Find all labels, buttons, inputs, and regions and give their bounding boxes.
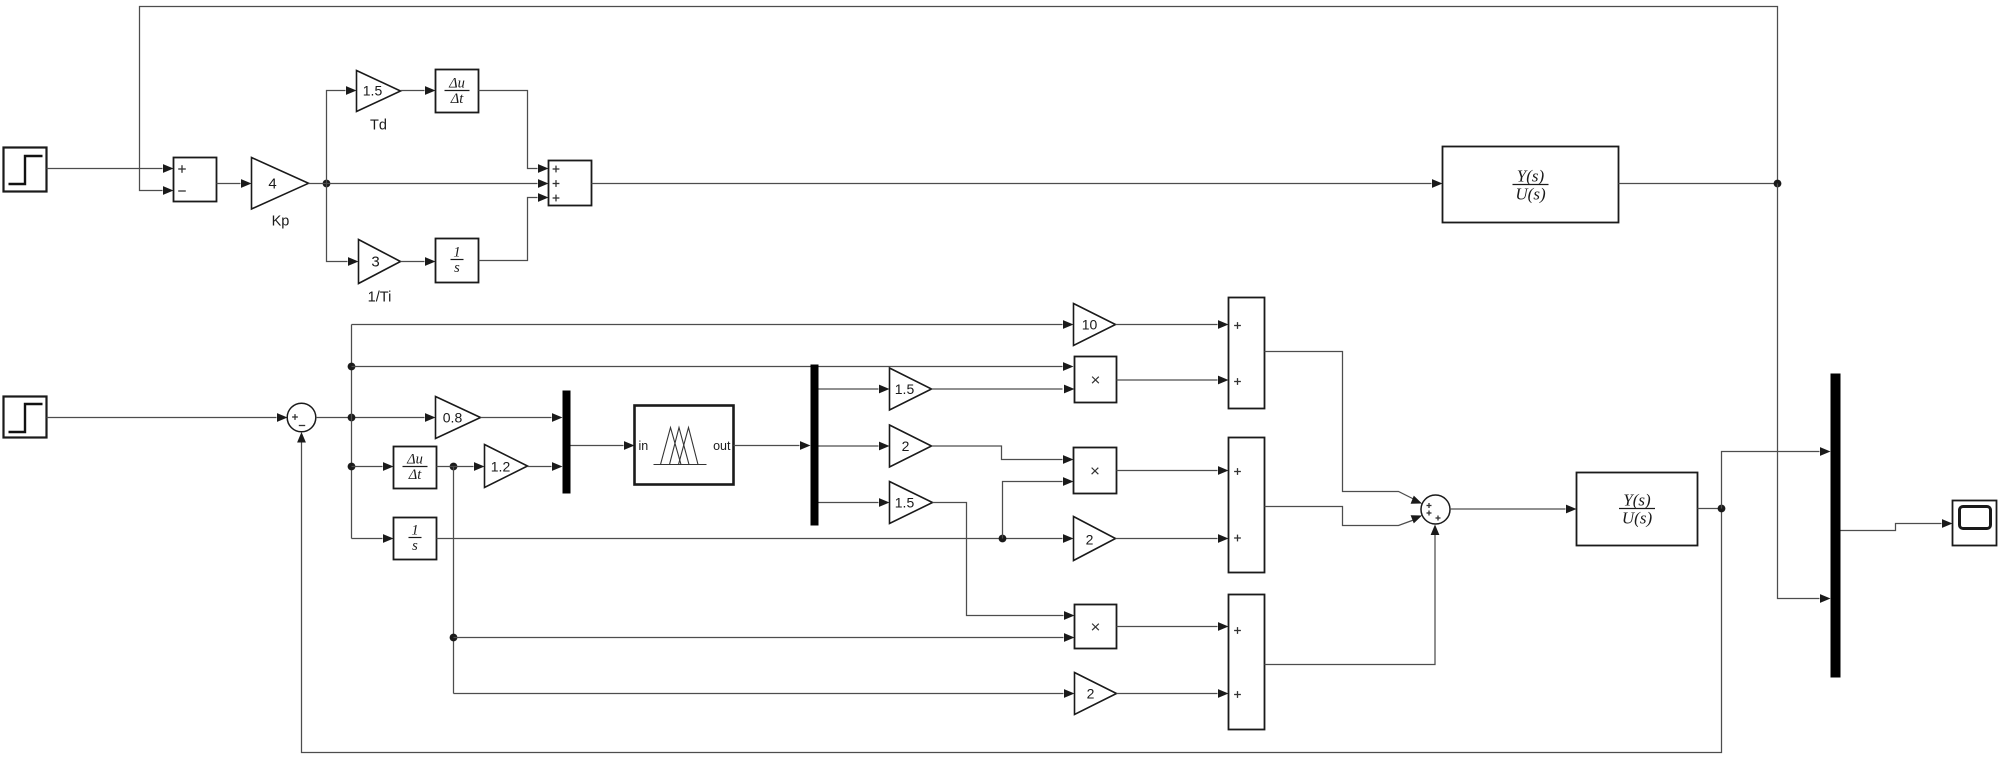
svg-text:4: 4 xyxy=(268,176,276,193)
scope block Scope xyxy=(1953,501,1997,546)
wire error to Product1 xyxy=(352,362,1074,371)
node after Kp xyxy=(323,180,331,188)
wire bottom feedback xyxy=(297,432,1721,753)
svg-text:3: 3 xyxy=(371,254,379,271)
wire 2c to SumR3 xyxy=(1117,689,1229,698)
wire Product2 to SumR2 xyxy=(1117,466,1229,475)
svg-text:0.8: 0.8 xyxy=(443,410,463,426)
wire derivative2 to 1.2 xyxy=(437,462,485,471)
wire top feedback xyxy=(140,7,1778,195)
wire derivative2 trunk xyxy=(453,467,455,694)
gain value 1.5 b xyxy=(890,482,933,524)
wire integrator2 to 2b xyxy=(437,534,1074,543)
wire SumR2 to SumC2 xyxy=(1265,507,1423,526)
svg-text:in: in xyxy=(639,439,649,453)
svg-text:Y(s): Y(s) xyxy=(1623,491,1651,510)
svg-text:U(s): U(s) xyxy=(1515,185,1546,204)
wire Demux to 1.5a xyxy=(819,385,890,394)
gain value 1.2 xyxy=(485,445,528,488)
svg-text:Δt: Δt xyxy=(408,467,423,483)
gain value 1.5 a xyxy=(890,368,932,410)
label 1/Ti xyxy=(368,290,392,306)
demux Demux1 xyxy=(811,365,819,526)
wire Plant1 to node xyxy=(1619,183,1778,185)
gain Kp value 4 xyxy=(252,158,309,210)
svg-text:2: 2 xyxy=(1086,532,1094,548)
gain Td value 1.5 xyxy=(357,71,401,112)
derivative block du/dt bottom xyxy=(394,447,437,489)
node derivative2 output xyxy=(450,463,458,471)
svg-text:Kp: Kp xyxy=(272,214,290,230)
wire error to derivative2 xyxy=(352,462,394,471)
svg-text:1: 1 xyxy=(453,245,460,261)
sum block SumR3 xyxy=(1229,595,1265,730)
wire Product1 to SumR1 xyxy=(1117,376,1229,385)
product Product3 xyxy=(1075,605,1117,649)
svg-text:Y(s): Y(s) xyxy=(1517,167,1545,186)
wire 10 to SumR1 xyxy=(1116,320,1229,329)
svg-text:Δu: Δu xyxy=(448,76,465,92)
node derivative branch xyxy=(450,634,458,642)
wire 1/Ti gain to integrator xyxy=(401,257,436,266)
wire integrator to Sum2 xyxy=(479,193,549,260)
svg-text:1.5: 1.5 xyxy=(895,495,915,511)
wire Kp to Sum2 middle xyxy=(309,179,549,188)
step source Step1 xyxy=(4,148,47,192)
wire Plant2 to Mux2 xyxy=(1722,447,1831,508)
mux Mux2 xyxy=(1831,374,1841,678)
svg-text:2: 2 xyxy=(902,438,910,454)
wire branch to Td gain xyxy=(327,86,357,183)
node integrator line xyxy=(999,535,1007,543)
svg-text:2: 2 xyxy=(1087,686,1095,702)
node error to product xyxy=(348,363,356,371)
transfer fcn Plant2 Y(s)/U(s) xyxy=(1577,473,1698,546)
wire Sum2 to Plant1 xyxy=(592,179,1443,188)
sum circle SumC1 xyxy=(287,403,316,432)
derivative block du/dt top xyxy=(436,70,479,113)
wire error to integrator2 xyxy=(352,534,394,543)
gain value 2 b xyxy=(1074,517,1116,561)
wire SumR1 to SumC2 xyxy=(1265,352,1423,504)
gain 1/Ti value 3 xyxy=(359,240,401,284)
wire Demux to 2a xyxy=(819,442,890,451)
wire branch to 1/Ti gain xyxy=(327,184,359,266)
wire error to gain 10 xyxy=(352,320,1074,329)
wire 1.2 to Mux1 xyxy=(528,462,563,471)
svg-text:1: 1 xyxy=(411,523,418,539)
wire Td gain to derivative xyxy=(401,86,436,95)
sum block Sum1 xyxy=(174,158,217,202)
wire Plant1 to Mux2 xyxy=(1778,184,1831,603)
label Kp xyxy=(272,214,290,230)
wire SumC2 to Plant2 xyxy=(1450,505,1577,514)
svg-text:s: s xyxy=(454,260,460,276)
svg-text:1.5: 1.5 xyxy=(895,381,915,397)
svg-text:Td: Td xyxy=(370,118,387,134)
sum block Sum2 xyxy=(549,161,592,206)
wire 2a to Product2 xyxy=(932,446,1074,464)
wire 2b to SumR2 xyxy=(1116,534,1229,543)
wire 0.8 to Mux1 xyxy=(481,413,563,422)
wire Demux to 1.5b xyxy=(819,498,890,507)
wire 1.5b to Product3 xyxy=(933,503,1075,620)
sum block SumR2 xyxy=(1229,438,1265,573)
transfer fcn Plant1 Y(s)/U(s) xyxy=(1443,147,1619,223)
wire Step1 to Sum1 xyxy=(47,164,174,173)
svg-text:1.2: 1.2 xyxy=(491,459,511,475)
fuzzy logic controller xyxy=(635,406,734,485)
node error to derivative xyxy=(348,463,356,471)
svg-text:1.5: 1.5 xyxy=(363,83,383,99)
wire Plant2 to node xyxy=(1698,508,1722,510)
wire Mux2 to Scope xyxy=(1841,519,1953,530)
svg-text:U(s): U(s) xyxy=(1622,509,1653,528)
gain value 0.8 xyxy=(436,397,481,439)
wire der to Product3 xyxy=(454,633,1075,642)
gain value 2 a xyxy=(890,425,932,467)
product Product2 xyxy=(1074,448,1117,494)
sum block SumR1 xyxy=(1229,298,1265,409)
wire Sum1 to Kp xyxy=(217,179,252,188)
svg-text:10: 10 xyxy=(1082,317,1098,333)
integrator block 1/s bottom xyxy=(394,518,437,560)
gain value 10 xyxy=(1074,304,1116,346)
integrator block 1/s top xyxy=(436,239,479,283)
svg-text:Δt: Δt xyxy=(450,91,465,107)
wire Step2 to SumC1 xyxy=(47,413,288,422)
wire der to 2c xyxy=(454,689,1075,698)
node error main xyxy=(348,414,356,422)
svg-text:×: × xyxy=(1091,618,1101,637)
node Plant1 output xyxy=(1774,180,1782,188)
svg-text:×: × xyxy=(1091,371,1101,390)
sum circle SumC2 xyxy=(1421,495,1450,524)
node Plant2 output xyxy=(1718,505,1726,513)
wire derivative to Sum2 xyxy=(479,91,549,173)
gain value 2 c xyxy=(1075,673,1117,715)
wire Mux1 to Fuzzy xyxy=(571,441,635,450)
wire SumR3 to SumC2 xyxy=(1265,525,1440,665)
svg-text:×: × xyxy=(1090,462,1100,481)
wire int to Product2 xyxy=(1003,477,1074,538)
svg-text:out: out xyxy=(713,439,731,453)
wire error trunk vertical xyxy=(351,325,353,539)
wire 1.5a to Product1 xyxy=(932,385,1075,394)
step source Step2 xyxy=(4,397,47,438)
svg-text:Δu: Δu xyxy=(406,452,423,468)
wire SumC1 to gain 0.8 xyxy=(316,413,436,422)
label Td xyxy=(370,118,387,134)
svg-text:s: s xyxy=(412,538,418,554)
wire Fuzzy to Demux xyxy=(734,441,811,450)
product Product1 xyxy=(1075,357,1117,403)
svg-text:1/Ti: 1/Ti xyxy=(368,290,392,306)
wire Product3 to SumR3 xyxy=(1117,622,1229,631)
mux Mux1 xyxy=(563,391,571,494)
